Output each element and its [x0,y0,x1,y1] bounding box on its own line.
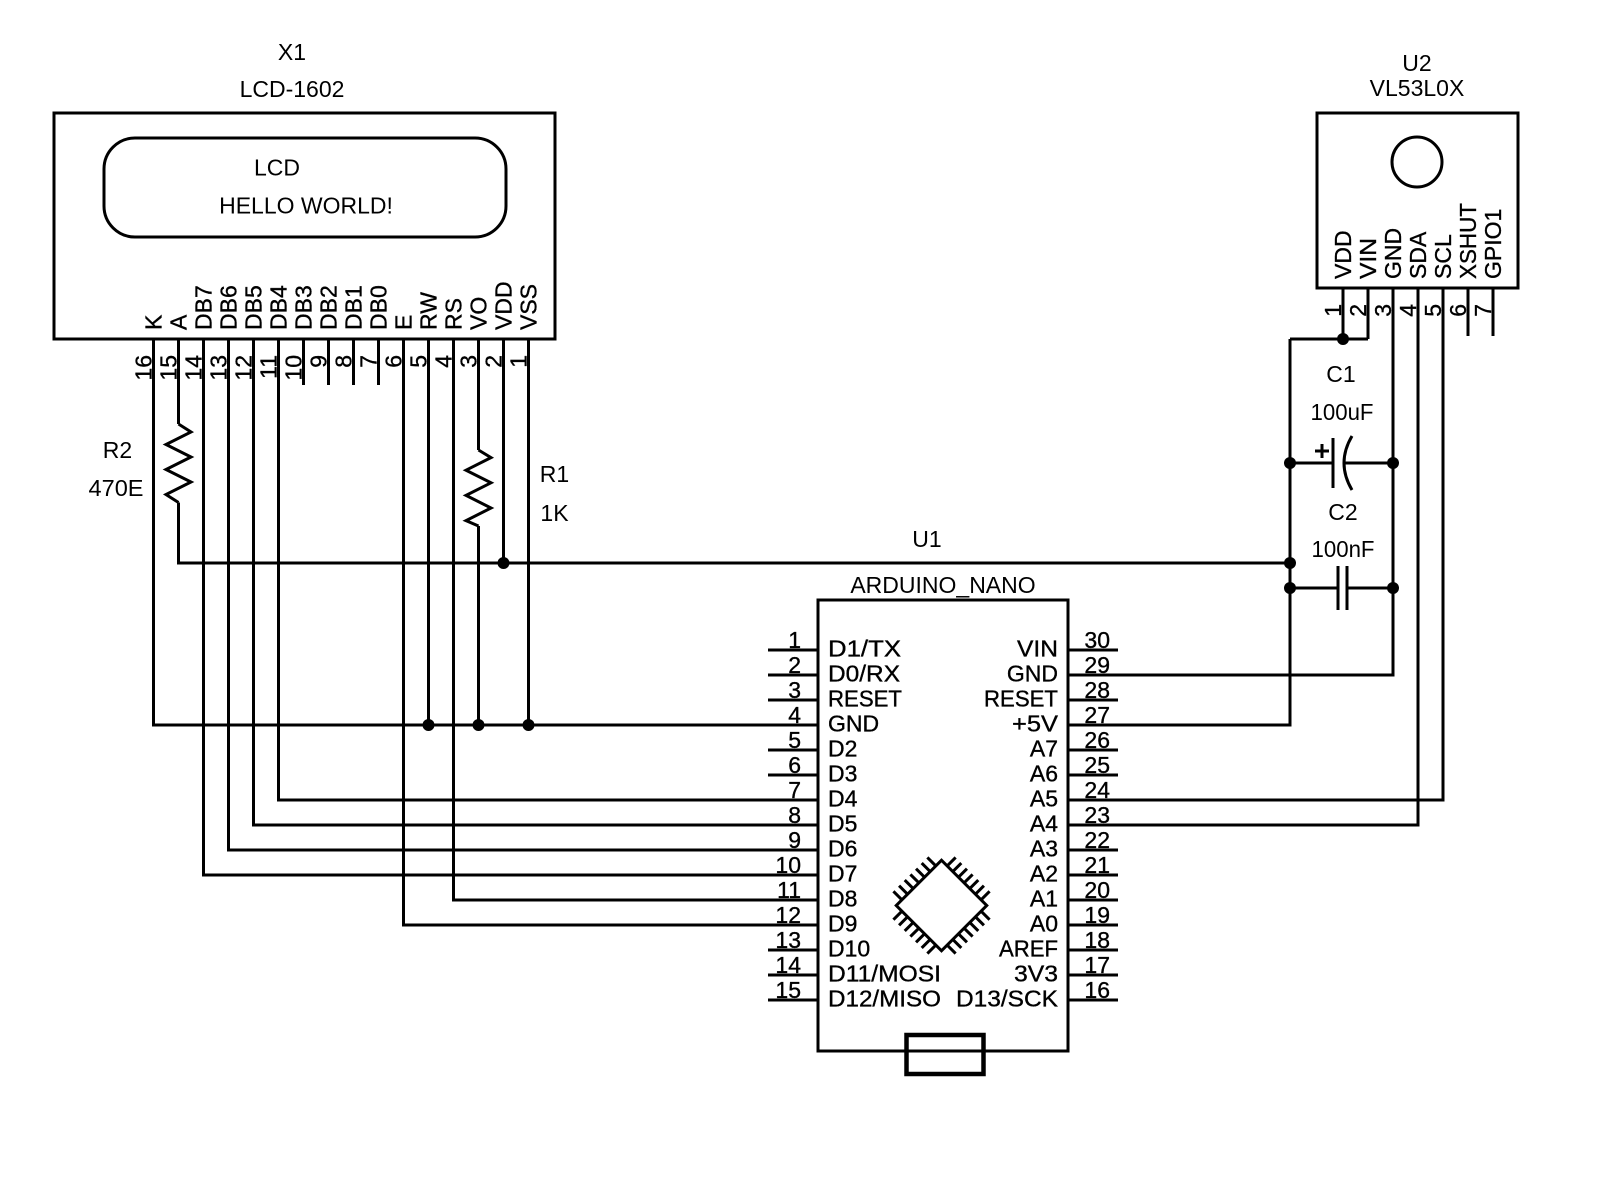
svg-text:D7: D7 [828,861,857,887]
svg-text:GND: GND [828,711,879,737]
svg-text:GND: GND [1007,661,1058,687]
svg-text:HELLO WORLD!: HELLO WORLD! [219,193,393,219]
svg-text:17: 17 [1084,952,1110,978]
svg-text:D9: D9 [828,911,857,937]
svg-text:19: 19 [1084,902,1110,928]
svg-text:AREF: AREF [999,936,1058,962]
svg-text:D12/MISO: D12/MISO [828,986,941,1012]
svg-text:A5: A5 [1030,786,1058,812]
svg-text:20: 20 [1084,877,1110,903]
svg-text:D13/SCK: D13/SCK [956,986,1059,1012]
svg-text:A7: A7 [1030,736,1058,762]
svg-text:VSS: VSS [516,284,542,330]
svg-text:SCL: SCL [1430,234,1456,279]
svg-text:VDD: VDD [1330,230,1356,279]
svg-text:ARDUINO_NANO: ARDUINO_NANO [850,572,1035,598]
svg-text:21: 21 [1084,852,1110,878]
svg-text:100uF: 100uF [1311,399,1374,425]
svg-text:30: 30 [1084,627,1110,653]
svg-text:10: 10 [775,852,801,878]
svg-text:RS: RS [441,298,467,330]
svg-text:X1: X1 [278,39,306,65]
svg-text:DB1: DB1 [341,285,367,330]
svg-text:7: 7 [788,777,801,803]
svg-text:D1/TX: D1/TX [828,636,901,662]
svg-text:D5: D5 [828,811,857,837]
svg-text:DB6: DB6 [216,285,242,330]
svg-text:D11/MOSI: D11/MOSI [828,961,941,987]
svg-text:A0: A0 [1030,911,1058,937]
svg-text:GND: GND [1380,228,1406,279]
svg-text:25: 25 [1084,752,1110,778]
svg-text:100nF: 100nF [1312,536,1375,562]
svg-text:A1: A1 [1030,886,1058,912]
svg-text:28: 28 [1084,677,1110,703]
svg-text:3: 3 [788,677,801,703]
svg-text:D6: D6 [828,836,857,862]
svg-text:GPIO1: GPIO1 [1480,209,1506,279]
svg-text:D3: D3 [828,761,857,787]
svg-text:18: 18 [1084,927,1110,953]
svg-text:A3: A3 [1030,836,1058,862]
svg-text:LCD-1602: LCD-1602 [240,76,345,102]
svg-text:C2: C2 [1328,499,1357,525]
svg-text:VO: VO [466,297,492,330]
svg-text:DB2: DB2 [316,285,342,330]
svg-text:14: 14 [775,952,801,978]
svg-text:RESET: RESET [828,686,902,712]
svg-text:D4: D4 [828,786,858,812]
svg-text:R2: R2 [103,437,132,463]
svg-text:VIN: VIN [1355,238,1381,279]
svg-text:LCD: LCD [254,155,300,181]
svg-text:27: 27 [1084,702,1110,728]
svg-text:DB5: DB5 [241,285,267,330]
svg-text:5: 5 [788,727,801,753]
svg-text:29: 29 [1084,652,1110,678]
svg-text:D2: D2 [828,736,857,762]
svg-text:A2: A2 [1030,861,1058,887]
svg-text:XSHUT: XSHUT [1455,203,1481,279]
svg-text:A: A [166,314,192,330]
svg-text:VL53L0X: VL53L0X [1370,75,1465,101]
svg-text:DB4: DB4 [266,285,292,330]
svg-text:U1: U1 [912,526,941,552]
svg-text:D0/RX: D0/RX [828,661,900,687]
svg-text:23: 23 [1084,802,1110,828]
svg-text:E: E [391,315,417,330]
svg-text:13: 13 [775,927,801,953]
svg-text:22: 22 [1084,827,1110,853]
svg-text:15: 15 [775,977,801,1003]
svg-text:8: 8 [788,802,801,828]
svg-text:4: 4 [788,702,801,728]
svg-text:+5V: +5V [1012,711,1059,737]
svg-text:3V3: 3V3 [1014,961,1058,987]
svg-text:R1: R1 [540,461,569,487]
svg-text:12: 12 [775,902,801,928]
svg-text:D10: D10 [828,936,870,962]
svg-text:1K: 1K [540,500,569,526]
svg-text:DB7: DB7 [191,285,217,330]
svg-text:9: 9 [788,827,801,853]
svg-text:11: 11 [777,877,801,903]
svg-text:SDA: SDA [1405,231,1431,279]
svg-text:RW: RW [416,292,442,330]
svg-text:DB3: DB3 [291,285,317,330]
svg-text:DB0: DB0 [366,285,392,330]
svg-text:470E: 470E [89,475,144,501]
svg-text:C1: C1 [1326,361,1355,387]
svg-text:U2: U2 [1402,50,1431,76]
svg-text:D8: D8 [828,886,857,912]
svg-text:A4: A4 [1030,811,1058,837]
svg-text:24: 24 [1084,777,1110,803]
svg-text:1: 1 [788,627,801,653]
svg-text:6: 6 [788,752,801,778]
svg-text:26: 26 [1084,727,1110,753]
svg-text:VIN: VIN [1017,636,1058,662]
svg-text:K: K [141,314,167,330]
svg-text:2: 2 [788,652,801,678]
svg-text:RESET: RESET [984,686,1058,712]
svg-text:16: 16 [1084,977,1110,1003]
svg-text:A6: A6 [1030,761,1058,787]
svg-text:VDD: VDD [491,281,517,330]
